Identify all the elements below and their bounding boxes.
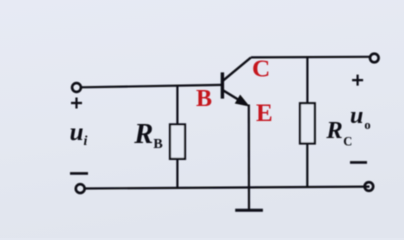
wire: emitter to ground bbox=[248, 105, 250, 211]
resistor RC body bbox=[300, 103, 315, 143]
resistor RB body bbox=[170, 124, 185, 158]
svg-text:B: B bbox=[196, 86, 212, 112]
wire: bottom rail bbox=[85, 187, 370, 189]
transistor Q1 (NPN) bbox=[222, 58, 251, 106]
output terminal - (bottom-right) bbox=[365, 182, 374, 191]
wire: RB upper lead bbox=[176, 86, 178, 125]
wire: top rail (collector to output terminal) bbox=[251, 56, 370, 59]
minus sign (output side) bbox=[350, 161, 367, 164]
transistor emitter lead bbox=[223, 90, 240, 100]
input terminal + (top-left) bbox=[72, 83, 81, 92]
ground bbox=[235, 209, 263, 212]
svg-text:E: E bbox=[256, 100, 273, 127]
plus sign (input side) bbox=[71, 98, 82, 109]
transistor emitter arrowhead bbox=[236, 96, 249, 106]
wire: RC lower lead bbox=[306, 144, 308, 188]
wire: RB lower lead bbox=[176, 159, 178, 188]
transistor base bar bbox=[221, 72, 224, 98]
input terminal - (bottom-left) bbox=[76, 184, 85, 193]
minus sign (input side) bbox=[70, 172, 88, 175]
transistor collector lead bbox=[223, 58, 251, 81]
plus sign (output side) bbox=[352, 75, 363, 86]
wire: RC upper lead bbox=[306, 57, 308, 103]
output terminal + (top-right) bbox=[370, 54, 379, 63]
wire: input top (terminal to transistor base) bbox=[81, 85, 222, 87]
svg-text:C: C bbox=[252, 56, 270, 82]
